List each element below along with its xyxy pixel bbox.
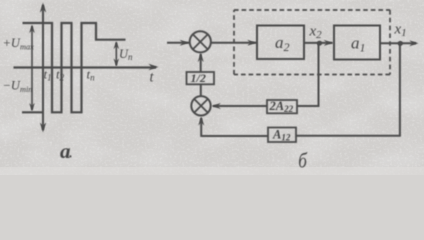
svg-text:1/2: 1/2	[191, 71, 206, 85]
svg-text:б: б	[298, 150, 308, 173]
svg-text:а: а	[60, 139, 71, 163]
